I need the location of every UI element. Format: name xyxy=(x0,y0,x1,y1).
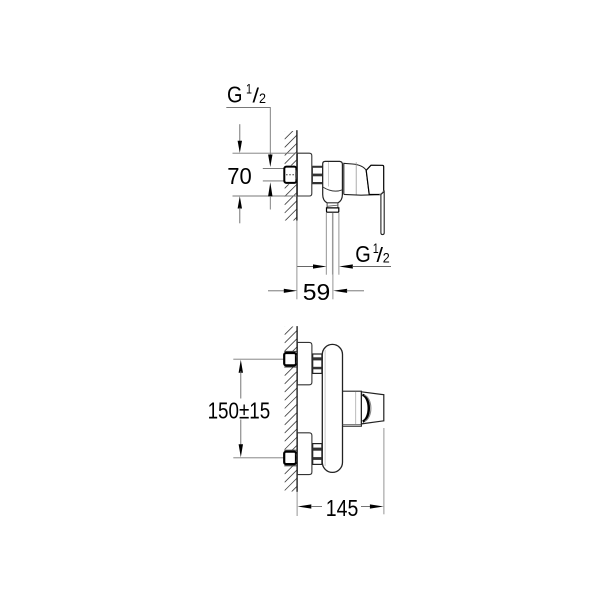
dim 70 arrow top xyxy=(239,124,241,142)
handle crescent outer xyxy=(364,395,371,421)
body inner highlight line xyxy=(327,162,329,187)
dim 150 line top xyxy=(239,360,243,373)
wall ext line to 145 dim xyxy=(296,492,298,516)
dome bottom edge xyxy=(344,193,381,196)
union cone bottom xyxy=(296,454,297,463)
G1/2 hose leader left arrow xyxy=(297,266,314,268)
union cone tip xyxy=(296,169,297,181)
in-wall union nut bottom xyxy=(284,452,296,464)
thread dashes inside nut xyxy=(286,174,295,176)
svg-text:1: 1 xyxy=(246,81,252,97)
svg-text:70: 70 xyxy=(227,163,252,189)
body chin arc xyxy=(323,187,343,191)
cartridge dome section xyxy=(344,163,369,194)
dim 145 right arrow xyxy=(361,506,370,508)
label G 1/2 (top) xyxy=(227,81,266,108)
svg-text:59: 59 xyxy=(303,279,331,305)
dome joint line xyxy=(355,162,357,194)
hose center ext line for 59 xyxy=(332,275,334,300)
capsule highlight xyxy=(324,350,326,466)
escutcheon bottom xyxy=(297,433,312,475)
escutcheon top xyxy=(297,342,312,384)
hinge shade xyxy=(380,191,384,195)
wall surface line xyxy=(296,326,298,492)
in-wall union nut top xyxy=(284,353,296,365)
lever arm xyxy=(381,192,384,235)
G1/2 leader arrow up xyxy=(268,182,272,196)
wall hatch xyxy=(285,119,297,238)
G1/2 top leader xyxy=(226,108,270,155)
cartridge box xyxy=(343,391,362,426)
svg-text:150±15: 150±15 xyxy=(208,398,271,424)
wall surface line xyxy=(296,130,298,220)
dim 145 right ext line xyxy=(383,428,385,514)
dim 145 left arrow xyxy=(298,504,312,508)
dim 70 arrow bottom xyxy=(238,196,242,208)
svg-text:145: 145 xyxy=(326,495,359,521)
union cone top xyxy=(296,355,297,364)
svg-text:G: G xyxy=(227,82,243,108)
G1/2 leader arrow down xyxy=(268,155,272,168)
mixer body capsule xyxy=(322,344,342,472)
neck flare line xyxy=(327,205,338,206)
dim 59 xyxy=(268,290,285,292)
svg-text:2: 2 xyxy=(383,250,390,266)
supply pipe behind wall xyxy=(263,167,285,169)
hose tube xyxy=(325,213,327,275)
label G 1/2 (hose) xyxy=(355,240,390,267)
s-union nut bottom xyxy=(313,444,322,465)
dim 70 ext line bottom xyxy=(233,195,298,197)
svg-text:2: 2 xyxy=(259,90,266,106)
wall extension line down to 59 dim xyxy=(296,221,298,300)
G1/2 hose leader right arrow xyxy=(339,264,353,268)
s-union nut top xyxy=(313,354,322,373)
dim 150 ext line top / supply pipe top xyxy=(233,358,284,360)
hose nut xyxy=(327,208,339,212)
handle knob xyxy=(366,165,384,194)
threaded nipple xyxy=(313,166,323,184)
upper wall hole edges xyxy=(284,350,297,352)
dim 150 ext line bottom / supply pipe bottom xyxy=(233,457,284,459)
dim 150 line bottom xyxy=(240,420,242,447)
mixer body block xyxy=(323,161,343,203)
dim 70 ext line top xyxy=(233,152,298,154)
in-wall union nut xyxy=(284,167,296,183)
handle (end-on) xyxy=(361,392,383,424)
escutcheon xyxy=(297,153,311,196)
wall hatch xyxy=(285,314,298,507)
lower wall hole edges xyxy=(284,449,297,451)
svg-text:G: G xyxy=(355,241,371,267)
outlet neck xyxy=(327,203,338,208)
handle crescent thick xyxy=(362,395,368,422)
